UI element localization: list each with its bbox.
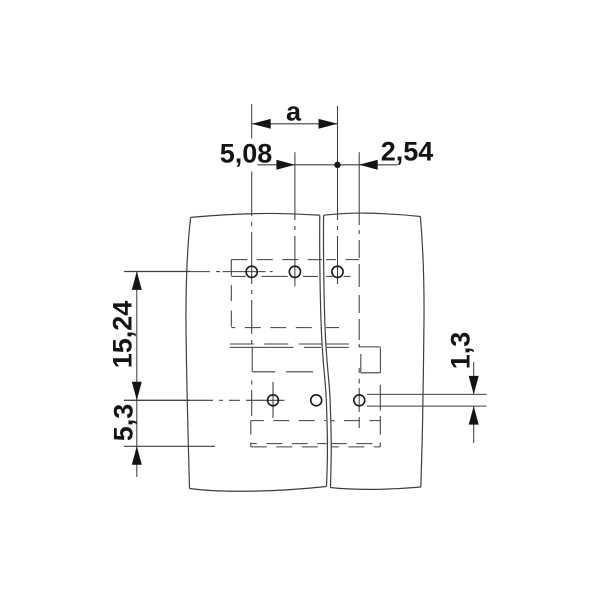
hidden line y=371.8 — [252, 371, 275, 373]
hidden rect left edge x=231.3 — [230, 260, 232, 328]
extension line y=400.3 left — [124, 399, 190, 401]
reference dot — [334, 162, 340, 168]
hidden step edge y=346.9 right piece — [359, 346, 381, 348]
plate left piece outline — [191, 213, 320, 217]
hidden bottom rect top y=420.6 — [251, 420, 326, 422]
svg-text:1,3: 1,3 — [446, 332, 476, 370]
hole row1 col3 — [332, 266, 343, 277]
hidden line y=344 — [230, 343, 322, 345]
hidden rect top edge y=259.6 — [231, 259, 322, 261]
centerline row2 col3 vertical — [358, 368, 360, 373]
arrow a left — [252, 119, 271, 129]
svg-text:5,08: 5,08 — [220, 139, 273, 169]
hidden edge x=359.2 dashes — [358, 264, 360, 287]
hole edge tangent line lower y=406.1 — [367, 405, 487, 407]
arrow 5,08 — [276, 160, 295, 170]
hole edge tangent line upper y=394.4 — [367, 393, 487, 395]
arrow 1,3 top — [469, 376, 479, 395]
hole row2 col1 — [268, 395, 279, 406]
dimension line a — [252, 123, 338, 125]
hidden line y=446.9 — [251, 446, 327, 448]
plate right piece outline — [324, 213, 421, 216]
arrow a right — [319, 119, 338, 129]
hidden inner line y=276.4 — [231, 275, 246, 277]
plate break line (left piece right edge) — [320, 215, 328, 486]
arrow 15,24 top — [132, 271, 142, 290]
hidden edge x=252.2 vertical — [251, 347, 253, 372]
centerline column1 vertical — [251, 104, 253, 139]
hidden line y=347.4 — [230, 346, 293, 348]
dimension line 5,08 — [258, 164, 338, 166]
svg-text:2,54: 2,54 — [381, 137, 434, 167]
hole row1 col2 — [289, 266, 300, 277]
hidden small rect right piece — [360, 354, 362, 373]
arrow 1,3 bottom — [469, 406, 479, 425]
arrow 2,54 — [359, 160, 378, 170]
hidden rect bottom y=327.6 — [231, 327, 322, 329]
hole row1 col1 — [246, 266, 257, 277]
hidden edge x=380.3 lower vertical — [379, 385, 381, 411]
extension line y=446.3 left — [124, 445, 215, 447]
arrow 5,3 bottom — [132, 446, 142, 465]
dimension line 2,54 — [338, 164, 398, 166]
centerline column2 vertical — [294, 152, 296, 220]
centerline row2 col1 vertical — [272, 382, 274, 418]
plate break line (right piece left edge) — [323, 215, 331, 487]
hole row2 col2 — [311, 395, 322, 406]
centerline column3 vertical — [337, 106, 339, 220]
hidden bottom rect left edge — [250, 421, 252, 447]
svg-text:5,3: 5,3 — [109, 404, 139, 442]
extension line x=359.2 vertical — [358, 152, 360, 225]
hidden bottom rect bottom y=443.6 — [251, 443, 327, 445]
hole row2 col3 — [354, 395, 365, 406]
centerline row1 horizontal — [124, 271, 210, 273]
dimension line 15,24 — [136, 271, 138, 400]
arrow 15,24 bottom — [132, 382, 142, 401]
svg-text:15,24: 15,24 — [108, 301, 138, 369]
svg-text:a: a — [286, 97, 302, 127]
centerline row2 horizontal — [124, 399, 213, 401]
dimension line 1,3 — [473, 362, 475, 394]
dimension line 5,3 — [136, 400, 138, 477]
extension line y=271.4 left — [124, 270, 190, 272]
